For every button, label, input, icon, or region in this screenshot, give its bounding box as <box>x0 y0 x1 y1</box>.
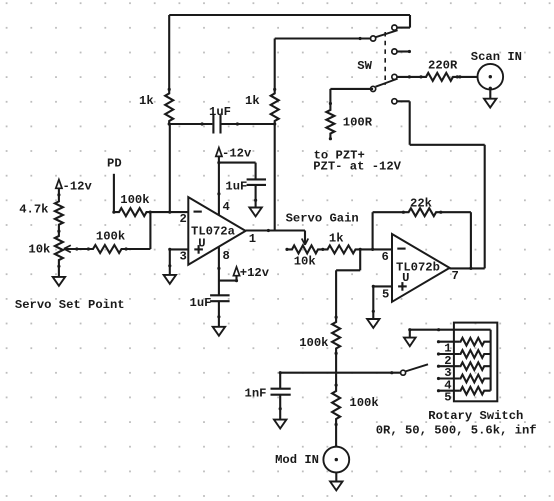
svg-text:Scan IN: Scan IN <box>471 50 522 64</box>
svg-text:-12v: -12v <box>222 146 252 160</box>
label 10k (servo gain) <box>294 254 316 268</box>
label 1nF <box>245 387 267 401</box>
label 1k (left) <box>139 94 154 108</box>
label TL072a <box>191 224 236 238</box>
svg-text:100k: 100k <box>349 396 378 410</box>
pin 3 label <box>180 250 187 264</box>
svg-text:22k: 22k <box>410 196 432 210</box>
svg-text:U: U <box>198 236 205 250</box>
switch SW throw 2 <box>392 49 411 54</box>
svg-text:6: 6 <box>382 250 389 264</box>
ground (rotary rail) <box>404 338 416 347</box>
wire right branch to switch <box>275 37 371 90</box>
svg-text:1k: 1k <box>139 94 154 108</box>
svg-text:+12v: +12v <box>240 266 270 280</box>
svg-text:100k: 100k <box>299 336 328 350</box>
label 0R, 50, 500, 5.6k, inf <box>376 424 537 438</box>
wire right 1k to op-amp output <box>274 124 276 231</box>
wire rotary common rail <box>408 328 490 391</box>
label 100k (PD input) <box>120 193 149 207</box>
ground (set point) <box>53 277 65 286</box>
wire divider node <box>335 353 337 385</box>
pin 5 label <box>382 288 389 302</box>
wire rotary common row <box>279 371 401 374</box>
power -12v (set point) <box>56 180 62 189</box>
pin 7 label <box>452 269 459 283</box>
switch SW pole 1 contact <box>371 36 376 41</box>
wire PD stub <box>113 174 115 212</box>
label -12v (set point) <box>63 180 93 194</box>
resistor R 1k (gain input) <box>323 245 362 253</box>
op-amp U TL072b <box>392 234 450 302</box>
svg-text:4: 4 <box>223 200 230 214</box>
wire gain node to divider <box>336 249 360 317</box>
potentiometer R 10k (set point) <box>55 230 63 268</box>
svg-text:4.7k: 4.7k <box>19 203 48 217</box>
label Servo Set Point <box>15 298 125 312</box>
switch SW mechanical link (dashed) <box>384 32 386 85</box>
rotary position label 2 <box>444 354 451 368</box>
svg-text:2: 2 <box>180 212 187 226</box>
svg-text:1uF: 1uF <box>209 105 231 119</box>
pin 8 label <box>223 249 230 263</box>
switch SW lever 1 <box>376 30 398 37</box>
wire pin 1 output <box>246 229 305 244</box>
label 4.7k <box>19 203 48 217</box>
connector Mod IN <box>323 447 349 473</box>
resistor R 100k (divider lower) <box>332 384 340 427</box>
svg-text:SW: SW <box>357 59 372 73</box>
ground (pin 5) <box>367 319 379 328</box>
resistor R 4.7k <box>55 193 63 231</box>
label Servo Gain <box>286 212 359 226</box>
wire 100k to Mod IN <box>335 425 338 449</box>
rotary position label 3 <box>444 366 451 380</box>
svg-text:220R: 220R <box>428 59 458 73</box>
resistor R 100k (PD input) <box>112 208 151 216</box>
label 1uF (+12v bypass) <box>190 296 212 310</box>
svg-text:1nF: 1nF <box>245 387 267 401</box>
svg-text:100k: 100k <box>120 193 149 207</box>
resistor R 1k (right feedback) <box>271 88 279 126</box>
wire Mod IN shield <box>335 473 337 482</box>
svg-text:1uF: 1uF <box>225 180 247 194</box>
svg-text:1k: 1k <box>329 232 344 246</box>
svg-text:1uF: 1uF <box>190 296 212 310</box>
wire pin 5 to ground <box>372 285 392 319</box>
pin 2 label <box>180 212 187 226</box>
svg-text:100k: 100k <box>96 229 125 243</box>
ground (pin 3) <box>164 275 176 284</box>
svg-text:U: U <box>402 271 409 285</box>
wire 100k to summing vertical <box>126 212 150 249</box>
label +12v (pin 8) <box>240 266 270 280</box>
capacitor 1uF (feedback) <box>213 115 220 134</box>
wire pot to ground <box>58 266 60 277</box>
rotary switch body <box>454 323 497 402</box>
rotary switch lever <box>406 364 429 371</box>
resistor R 220R <box>419 73 459 81</box>
power +12v (pin 8) <box>233 267 239 276</box>
wire bypass cap to ground <box>254 185 257 207</box>
resistor R 1k (left feedback) <box>165 88 173 126</box>
label 22k <box>410 196 432 210</box>
label Rotary Switch <box>428 409 523 423</box>
potentiometer R 10k (servo gain) <box>285 245 324 253</box>
capacitor C 1nF <box>271 373 291 420</box>
resistor R 100R <box>326 102 334 140</box>
wire pin 3 to ground <box>168 248 188 275</box>
svg-text:5: 5 <box>444 391 451 405</box>
resistor R 100k (set point input) <box>87 245 128 253</box>
wire -12v stem <box>58 188 60 195</box>
label U (TL072b) <box>402 271 409 285</box>
rotary switch resistor position 4 <box>437 375 491 383</box>
wire 22k feedback right <box>441 212 471 268</box>
svg-text:Servo Set Point: Servo Set Point <box>15 298 125 312</box>
svg-text:3: 3 <box>180 250 187 264</box>
switch SW throw 4 <box>392 99 410 104</box>
svg-text:-12v: -12v <box>63 180 93 194</box>
wire summing node to pin 2 <box>150 124 188 214</box>
wire 220R to Scan IN <box>457 75 477 78</box>
wire pole2 to 100R <box>330 89 373 104</box>
svg-text:PZT- at -12V: PZT- at -12V <box>313 160 401 174</box>
rotary position label 5 <box>444 391 451 405</box>
wire pin 8 supply <box>217 247 238 295</box>
wire summing node row <box>169 122 275 125</box>
ground (+12v bypass) <box>213 327 225 336</box>
connector Scan IN <box>478 64 504 90</box>
svg-text:10k: 10k <box>28 242 50 256</box>
svg-text:PD: PD <box>107 156 122 170</box>
potentiometer wiper (servo gain) <box>302 239 309 245</box>
power -12v (pin 4) <box>216 148 222 157</box>
svg-text:7: 7 <box>452 269 459 283</box>
wire Scan IN shield stub <box>489 87 492 99</box>
label Scan IN <box>471 50 522 64</box>
resistor R 22k <box>402 208 443 216</box>
capacitor 1uF (-12v bypass) <box>247 179 266 185</box>
switch SW throw 3 <box>392 74 421 79</box>
svg-text:1k: 1k <box>245 94 260 108</box>
switch SW lever 2 <box>376 79 398 87</box>
label 10k (set point) <box>28 242 50 256</box>
ground (-12v bypass) <box>249 208 261 217</box>
label PD <box>107 156 122 170</box>
pin 4 label <box>223 200 230 214</box>
label 1uF (-12v bypass) <box>225 180 247 194</box>
label 1k (gain input) <box>329 232 344 246</box>
label 220R <box>428 59 458 73</box>
rotary switch resistor position 1 <box>437 338 491 346</box>
pin 6 label <box>382 250 389 264</box>
label SW <box>357 59 372 73</box>
wire 22k feedback left <box>373 212 404 249</box>
label 1k (right) <box>245 94 260 108</box>
rotary switch common contact <box>401 370 406 375</box>
rotary position label 1 <box>444 342 451 356</box>
wire rotary rail ground stem <box>409 330 411 338</box>
wire top feedback rail <box>169 15 410 28</box>
svg-text:10k: 10k <box>294 254 316 268</box>
ground (Scan IN) <box>484 99 496 108</box>
label Mod IN <box>275 453 319 467</box>
wire left feedback branch <box>168 15 170 89</box>
wire pin 7 output <box>450 267 485 270</box>
svg-text:Servo Gain: Servo Gain <box>286 212 359 226</box>
label 100k (divider upper) <box>299 336 328 350</box>
rotary switch resistor position 2 <box>437 350 491 358</box>
svg-text:5: 5 <box>382 288 389 302</box>
rotary switch resistor position 5 <box>437 387 491 395</box>
ground (Mod IN) <box>330 482 342 491</box>
label 1uF (feedback) <box>209 105 231 119</box>
label U (TL072a) <box>198 236 205 250</box>
pin 1 label <box>249 232 256 246</box>
label TL072b <box>396 261 440 275</box>
capacitor 1uF (+12v bypass) <box>210 295 230 301</box>
ground (1nF) <box>274 420 286 429</box>
rotary position label 4 <box>444 379 451 393</box>
label 100k (set point input) <box>96 229 125 243</box>
svg-text:0R, 50, 500, 5.6k, inf: 0R, 50, 500, 5.6k, inf <box>376 424 537 438</box>
svg-text:100R: 100R <box>343 115 373 129</box>
label -12v (pin 4) <box>222 146 252 160</box>
rotary switch resistor position 3 <box>437 362 491 370</box>
switch SW throw 1 <box>392 25 410 30</box>
wire 1k to pin 6 <box>360 248 392 251</box>
resistor R 100k (divider upper) <box>332 316 340 355</box>
label 100R <box>343 115 373 129</box>
label to PZT+ <box>314 148 365 162</box>
potentiometer wiper (set point) <box>64 245 89 252</box>
svg-text:8: 8 <box>223 249 230 263</box>
wire +12v cap to ground <box>217 301 220 327</box>
op-amp U TL072a <box>188 197 245 265</box>
wire pin 4 supply <box>217 156 255 214</box>
label 100k (divider lower) <box>349 396 378 410</box>
svg-text:Mod IN: Mod IN <box>275 453 319 467</box>
svg-text:Rotary Switch: Rotary Switch <box>428 409 523 423</box>
label PZT- at -12V <box>313 160 401 174</box>
switch SW pole 2 contact <box>371 86 376 91</box>
wire throw4 to output net <box>410 101 485 268</box>
svg-text:1: 1 <box>249 232 256 246</box>
